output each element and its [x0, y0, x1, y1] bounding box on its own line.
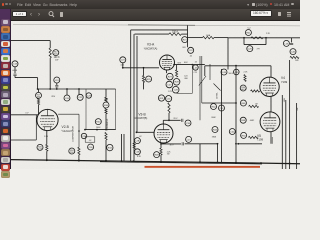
svg-text:.02: .02	[139, 136, 142, 138]
svg-text:C27: C27	[167, 84, 172, 86]
svg-text:C25: C25	[194, 72, 197, 74]
svg-text:30 V: 30 V	[170, 144, 175, 146]
svg-text:LOUDNESS: LOUDNESS	[107, 118, 109, 130]
svg-text:COMPENSATOR: COMPENSATOR	[72, 125, 75, 142]
svg-text:779: 779	[257, 48, 260, 50]
svg-text:1.2V: 1.2V	[168, 91, 173, 93]
svg-text:R28: R28	[175, 82, 180, 84]
svg-text:.0082: .0082	[249, 120, 254, 122]
svg-text:4.2K: 4.2K	[137, 156, 142, 158]
svg-text:.02: .02	[89, 140, 93, 142]
svg-text:0 V: 0 V	[26, 113, 30, 115]
svg-text:360K: 360K	[211, 117, 216, 119]
svg-text:2.2K: 2.2K	[244, 72, 249, 74]
svg-text:2.2K: 2.2K	[266, 33, 271, 35]
svg-text:5-2: 5-2	[248, 27, 252, 29]
svg-text:100A: 100A	[206, 34, 211, 37]
svg-text:R2B: R2B	[154, 155, 159, 157]
svg-text:.05: .05	[189, 55, 192, 57]
svg-text:1M: 1M	[255, 104, 258, 106]
svg-text:380V: 380V	[284, 97, 286, 102]
svg-text:560 K: 560 K	[241, 89, 247, 91]
svg-text:85V: 85V	[52, 96, 56, 98]
svg-text:C28: C28	[174, 90, 179, 92]
svg-text:7199: 7199	[281, 80, 288, 84]
svg-text:½6CM7(A): ½6CM7(A)	[144, 46, 158, 50]
svg-text:C2B: C2B	[135, 152, 140, 154]
svg-text:.05: .05	[194, 61, 197, 63]
svg-text:L27: L27	[187, 139, 191, 141]
svg-text:380K: 380K	[212, 136, 217, 138]
svg-text:C31: C31	[167, 99, 172, 101]
svg-text:1.5K: 1.5K	[38, 148, 43, 150]
svg-text:60V: 60V	[184, 62, 188, 64]
svg-text:560K: 560K	[96, 127, 101, 129]
svg-text:δ2F: δ2F	[295, 60, 299, 62]
svg-text:R31: R31	[159, 98, 164, 100]
svg-text:½6CM7(B): ½6CM7(B)	[134, 116, 148, 120]
svg-text:R34: R34	[108, 148, 113, 150]
svg-text:½12AU7: ½12AU7	[62, 129, 73, 133]
svg-text:R27: R27	[168, 77, 173, 79]
svg-text:1W: 1W	[167, 154, 170, 156]
svg-text:680: 680	[185, 78, 188, 80]
svg-text:L23: L23	[121, 60, 125, 62]
svg-text:MIL: MIL	[297, 107, 299, 110]
svg-text:1W: 1W	[55, 60, 59, 62]
svg-text:L29: L29	[285, 43, 289, 45]
svg-text:80V: 80V	[183, 47, 187, 49]
svg-text:150 A: 150 A	[172, 31, 178, 34]
svg-text:L2B: L2B	[135, 141, 139, 143]
svg-text:L19: L19	[55, 80, 59, 82]
svg-text:LEVEL: LEVEL	[217, 91, 219, 98]
